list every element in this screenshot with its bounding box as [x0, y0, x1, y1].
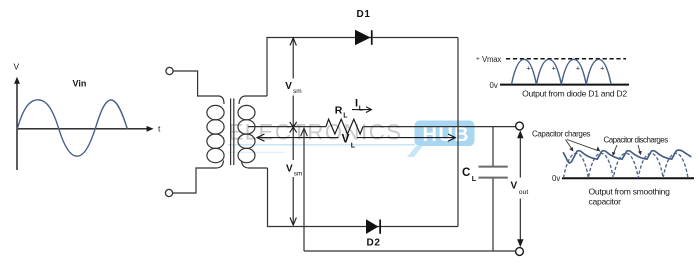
- Vsm junction X: [290, 122, 297, 133]
- output terminal top: [516, 122, 524, 130]
- transformer T1 primary winding: [207, 105, 224, 162]
- svg-text:D1: D1: [357, 9, 371, 20]
- svg-text:out: out: [519, 189, 529, 196]
- svg-text:V: V: [286, 164, 293, 175]
- annotation arrows discharges: [612, 145, 642, 156]
- wire secondary bottom lead: [242, 161, 268, 169]
- wire secondary top lead: [239, 96, 267, 104]
- wire bottom rail: [304, 250, 516, 252]
- svg-text:sm: sm: [293, 88, 302, 95]
- watermark ELECTRONICS HUB (decorative): [228, 119, 475, 157]
- svg-text:V: V: [285, 81, 292, 92]
- svg-text:V: V: [511, 181, 518, 192]
- svg-text:0v: 0v: [552, 174, 560, 183]
- output terminal bottom: [516, 248, 524, 256]
- ripple waveform: [563, 150, 691, 163]
- wire primary bottom lead: [173, 161, 224, 194]
- resistor RL: [326, 119, 363, 134]
- svg-text:R: R: [335, 105, 343, 117]
- svg-text:C: C: [462, 167, 470, 179]
- svg-text:0v: 0v: [490, 81, 498, 90]
- svg-text:V: V: [14, 62, 20, 72]
- wire bottom diode rail: [268, 168, 459, 227]
- svg-text:+: +: [527, 64, 532, 73]
- input terminal top: [166, 67, 173, 74]
- svg-text:+: +: [576, 64, 581, 73]
- wire top rail with D1: [267, 38, 458, 97]
- wire right vertical (cathode junction): [457, 38, 459, 227]
- svg-text:Vmax: Vmax: [482, 55, 501, 64]
- Vin graph axes: [14, 77, 154, 170]
- Vsm bottom measure arrow: [290, 127, 296, 225]
- Vsm top measure arrow: [290, 38, 296, 127]
- svg-text:D2: D2: [367, 238, 381, 249]
- svg-text:V: V: [342, 132, 350, 146]
- Vmax dashed level line: [506, 58, 626, 60]
- Vin sine wave: [17, 100, 127, 156]
- svg-text:Output from diode D1 and D2: Output from diode D1 and D2: [522, 88, 627, 98]
- 0v baseline: [500, 84, 629, 86]
- svg-text:Output from smoothing: Output from smoothing: [589, 187, 671, 197]
- diode D2: [366, 219, 381, 234]
- input terminal bottom: [165, 189, 172, 196]
- VL span arrow: [257, 134, 456, 141]
- v axis: [16, 81, 18, 170]
- svg-text:L: L: [351, 143, 356, 150]
- rectified humps: [512, 59, 612, 84]
- svg-text:Capacitor discharges: Capacitor discharges: [604, 135, 669, 144]
- svg-text:L: L: [472, 176, 477, 183]
- wire output line (center tap to output): [248, 126, 516, 128]
- annotation arrows charges: [566, 140, 601, 153]
- chart: output from diodes: [476, 55, 629, 99]
- transformer T1 secondary winding: [238, 105, 255, 162]
- svg-text:sm: sm: [294, 171, 303, 178]
- Vout measure arrow: [517, 130, 523, 247]
- diode D1: [355, 30, 373, 46]
- wire return with up arrow: [301, 128, 308, 251]
- transformer T1 core: [231, 99, 234, 166]
- dashed rectified humps: [564, 153, 689, 178]
- svg-text:+: +: [552, 64, 557, 73]
- svg-text:+: +: [476, 56, 480, 63]
- svg-text:Capacitor charges: Capacitor charges: [532, 130, 591, 139]
- t axis: [17, 128, 150, 130]
- chart: output from smoothing capacitor: [532, 130, 694, 207]
- svg-text:capacitor: capacitor: [589, 197, 622, 207]
- svg-text:L: L: [343, 113, 348, 120]
- svg-text:+: +: [600, 64, 605, 73]
- wire primary top lead: [173, 71, 224, 104]
- 0v baseline: [562, 177, 694, 179]
- svg-text:L: L: [359, 106, 364, 113]
- capacitor CL: [479, 127, 508, 251]
- svg-text:Vin: Vin: [73, 78, 87, 88]
- svg-text:I: I: [355, 98, 358, 110]
